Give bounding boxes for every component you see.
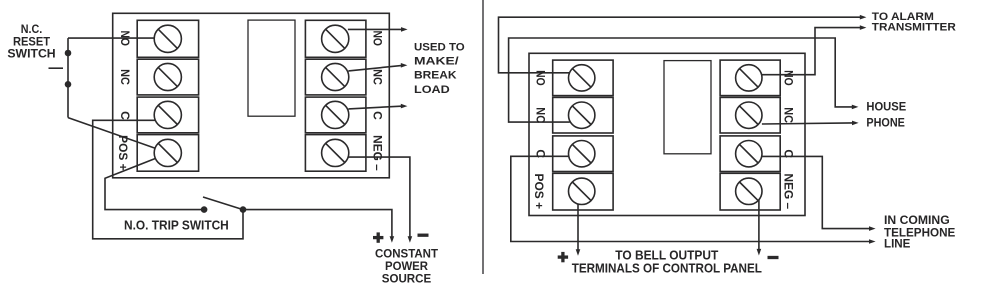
wire: left C terminal to line arrow (bottom loop) [511, 156, 869, 241]
wire: POS terminal down to + bell output [577, 204, 579, 250]
wire: NEG terminal down to - bell output [758, 200, 760, 250]
svg-text:TRANSMITTER: TRANSMITTER [872, 22, 956, 34]
screw terminal right-col NC [322, 63, 349, 90]
terminal square right-diagram left-col row POS [553, 173, 613, 210]
wire arrow: right NC terminal to load [348, 66, 401, 71]
svg-text:PHONE: PHONE [866, 116, 905, 130]
svg-text:C: C [534, 149, 548, 158]
terminal square left-col row NC [137, 59, 198, 95]
svg-text:POS +: POS + [116, 135, 130, 171]
wire: right NO terminal to transmitter arrow [761, 28, 860, 75]
terminal square left-col row POS [137, 135, 198, 172]
screw terminal right-diagram right-col C [736, 141, 762, 167]
svg-text:BREAK: BREAK [414, 70, 457, 82]
svg-text:CONSTANT: CONSTANT [375, 248, 439, 261]
terminal block body (right diagram) [529, 53, 805, 215]
screw terminal right-col NEG [322, 139, 349, 166]
wire: trip switch left contact to POS screw [105, 158, 204, 210]
svg-text:NC: NC [782, 107, 796, 123]
terminal square right-col row NO [305, 20, 366, 57]
wire: reset switch bottom diagonal to POS screw [68, 118, 155, 149]
svg-text:LOAD: LOAD [414, 84, 450, 96]
relay U2 (right diagram centre block) [664, 61, 711, 154]
svg-text:NC: NC [370, 69, 384, 85]
svg-text:NO: NO [370, 30, 384, 46]
N.O. trip switch contact dot (left) [201, 206, 208, 213]
screw terminal left-col NC [154, 63, 181, 90]
terminal square right-diagram left-col row NO [553, 60, 613, 96]
svg-text:POS +: POS + [532, 174, 546, 210]
screw terminal right-diagram right-col NO [736, 65, 762, 91]
terminal square right-col row NC [305, 59, 366, 95]
svg-text:C: C [782, 149, 796, 158]
terminal square right-diagram right-col row C [720, 136, 780, 172]
plus sign (bell output) [558, 252, 568, 262]
svg-text:HOUSE: HOUSE [866, 100, 906, 114]
N.C. reset switch contact dot (bottom) [65, 81, 72, 88]
svg-text:NC: NC [118, 69, 132, 85]
screw terminal right-diagram right-col NEG [736, 178, 762, 204]
svg-text:NEG –: NEG – [370, 135, 384, 171]
minus sign (constant power source) [418, 234, 429, 237]
svg-text:SWITCH: SWITCH [7, 47, 55, 61]
N.C. reset switch blade [67, 38, 69, 118]
wire: left NC terminal to house phone (upper loop) [509, 38, 852, 122]
wire: right C terminal to incoming telephone line [762, 156, 870, 228]
wire: left NO terminal to alarm transmitter [499, 17, 861, 73]
plus sign (constant power source) [373, 232, 383, 242]
screw terminal right-diagram left-col NO [569, 65, 595, 91]
terminal square right-diagram left-col row C [553, 136, 613, 172]
wire: trip switch to + of constant power source [243, 210, 392, 237]
svg-text:NEG –: NEG – [782, 174, 796, 210]
svg-text:NO: NO [534, 70, 548, 86]
terminal square left-col row NO [137, 20, 198, 57]
svg-text:N.O. TRIP SWITCH: N.O. TRIP SWITCH [124, 217, 229, 232]
terminal square right-col row NEG [305, 135, 366, 172]
wire: right NC terminal to phone arrow [762, 123, 852, 124]
N.O. trip switch lever [203, 197, 243, 210]
minus sign (bell output) [768, 256, 779, 259]
wire: NEG terminal to - of constant power source [348, 157, 410, 237]
terminal square right-diagram right-col row NEG [720, 173, 780, 210]
svg-text:TERMINALS OF CONTROL PANEL: TERMINALS OF CONTROL PANEL [572, 261, 762, 276]
N.C. reset switch actuator [49, 67, 64, 69]
screw terminal right-col NO [322, 25, 349, 52]
svg-text:LINE: LINE [884, 237, 911, 251]
terminal block body (left diagram) [113, 13, 390, 178]
screw terminal left-col C [154, 101, 181, 128]
svg-text:USED TO: USED TO [414, 41, 465, 53]
wire: reset switch top to NO terminal [68, 37, 156, 39]
svg-text:MAKE/: MAKE/ [414, 56, 460, 68]
svg-text:SOURCE: SOURCE [382, 273, 432, 286]
screw terminal right-col C [322, 101, 349, 128]
wire: C terminal to trip switch (left, down, right, up) [93, 120, 243, 239]
page divider rule [482, 0, 484, 274]
svg-text:C: C [118, 111, 132, 120]
terminal square left-col row C [137, 97, 198, 133]
screw terminal right-diagram left-col NC [569, 102, 595, 128]
terminal square right-diagram right-col row NO [720, 60, 780, 96]
terminal square right-diagram left-col row NC [553, 97, 613, 133]
screw terminal left-col NO [154, 25, 181, 52]
svg-text:NO: NO [118, 30, 132, 46]
wire arrow: right C terminal to load [348, 106, 401, 109]
relay U1 (left diagram centre block) [248, 20, 295, 116]
screw terminal right-diagram left-col C [569, 141, 595, 167]
wire arrow: right NO terminal to load [348, 28, 401, 30]
screw terminal right-diagram left-col POS [569, 178, 595, 204]
terminal square right-diagram right-col row NC [720, 97, 780, 133]
svg-text:C: C [370, 111, 384, 120]
svg-text:POWER: POWER [385, 260, 429, 273]
N.O. trip switch contact dot (right) [240, 206, 247, 213]
N.C. reset switch contact dot (top) [65, 50, 72, 57]
svg-text:NO: NO [782, 70, 796, 86]
terminal square right-col row C [305, 97, 366, 133]
screw terminal right-diagram right-col NC [736, 102, 762, 128]
screw terminal left-col POS [154, 139, 181, 166]
svg-text:NC: NC [534, 107, 548, 123]
